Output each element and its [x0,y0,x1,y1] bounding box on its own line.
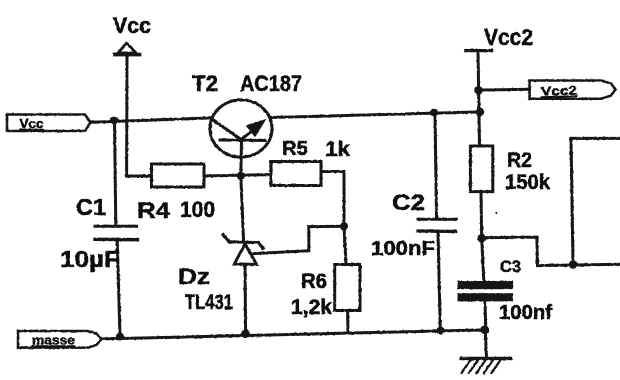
zener diode Dz (TL431) [178,235,263,334]
node: R2 / C3 junction [477,234,486,243]
net flag Vcc [7,115,91,132]
net flag masse [18,331,102,348]
capacitor C3 [458,238,553,329]
node: C2 tap [430,109,438,117]
transistor T2 (AC187) [192,71,302,157]
node: C1 tap on input wire [110,117,118,125]
svg-text:1k: 1k [325,138,350,161]
capacitor C2 [371,113,456,331]
wire: Vcc flag to transistor [91,118,210,122]
node: zener / masse [241,330,250,339]
power symbol Vcc2 (T-bar) [466,24,534,51]
wire: to R4 left [127,175,152,178]
wire: R5 right down to R6 [321,172,346,265]
resistor R2 [470,146,550,194]
node: Vcc2 flag tap [474,86,483,95]
svg-text:100nF: 100nF [371,238,435,260]
svg-text:100nf: 100nf [499,302,552,324]
resistor R5 [271,138,350,186]
svg-text:10µF: 10µF [60,246,120,272]
svg-text:Vcc: Vcc [113,13,151,38]
svg-text:R6: R6 [301,270,327,293]
svg-text:Vcc2: Vcc2 [541,84,577,99]
wire: R4 to R5 [204,175,271,176]
scan speck [495,212,497,215]
node: C2 / masse [436,327,444,335]
svg-text:C1: C1 [76,194,106,220]
node: T2 base junction [237,172,245,180]
svg-text:C3: C3 [500,257,521,276]
svg-text:TL431: TL431 [185,291,233,314]
node: C3 / ground junction [480,325,489,334]
wire: Vcc2 vertical down to R2 [478,51,480,146]
wire: junction right and down to lower stub [482,237,620,266]
node: main wire / Vcc2 vertical [476,108,485,117]
wire: base junction down to zener [241,176,244,242]
node: C1 / masse [116,333,124,341]
wire: masse rail [101,330,485,339]
svg-text:1,2k: 1,2k [291,296,332,319]
capacitor C1 [60,121,138,337]
svg-text:masse: masse [32,334,75,348]
wire: right stub top horizontal [571,137,620,140]
node: right stub junction [569,260,578,269]
svg-text:150k: 150k [505,171,550,194]
svg-text:AC187: AC187 [240,71,302,96]
wire: right stub vertical [571,138,573,264]
wire: R2 bottom [480,192,484,239]
svg-text:Vcc2: Vcc2 [484,24,533,50]
svg-text:R4: R4 [137,198,171,223]
svg-text:Dz: Dz [178,264,210,289]
svg-text:R5: R5 [282,138,308,160]
svg-text:R2: R2 [507,149,532,172]
wire: T2 base lead [239,141,243,176]
resistor R4 [137,164,215,223]
wire: zener cathode to R5/R6 node [253,226,345,253]
node: R5/R6/zener junction [340,222,348,230]
svg-text:T2: T2 [192,71,218,96]
resistor R6 [291,265,360,320]
ground [461,330,511,373]
net flag Vcc2 [530,81,616,99]
svg-text:100: 100 [180,197,215,222]
svg-text:C2: C2 [392,190,425,215]
svg-text:Vcc: Vcc [20,117,44,131]
wire: to Vcc2 flag [482,88,530,92]
power symbol Vcc (arrow) [113,13,151,55]
wire: Vcc arrow down to R4 level [125,55,128,176]
wire: T2 right to Vcc2 node [272,112,480,118]
wire: R6 bottom to masse [346,311,350,332]
